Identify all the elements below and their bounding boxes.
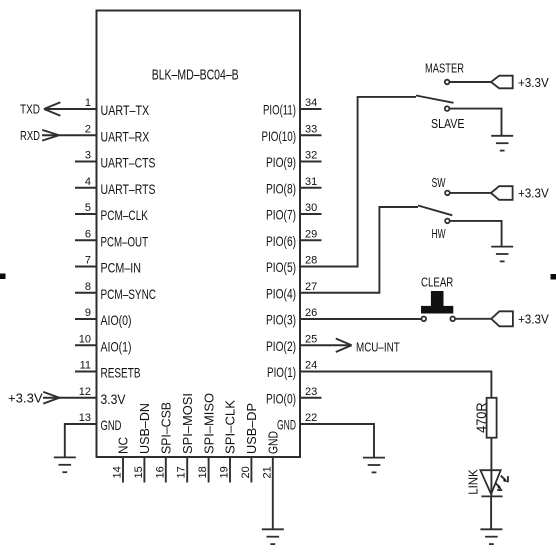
svg-text:10: 10	[79, 333, 91, 345]
pin 29 label PIO(6)	[266, 233, 296, 249]
svg-text:+3.3V: +3.3V	[518, 75, 549, 90]
push button CLEAR left terminal	[422, 317, 427, 322]
ground symbol (LED)	[480, 529, 502, 544]
pin 16 stub	[165, 457, 167, 483]
pin 20 label USB–DP	[244, 403, 259, 454]
svg-text:28: 28	[305, 255, 317, 267]
pin 27 number	[305, 281, 317, 293]
pin 1 number	[85, 97, 91, 109]
pin 18 number	[197, 466, 209, 478]
pin 26 number	[305, 307, 317, 319]
pin 7 number	[85, 255, 91, 267]
label HW	[432, 226, 446, 241]
pin 21 number	[261, 466, 273, 478]
wire MASTER terminal to +3.3V flag	[450, 81, 491, 83]
ground symbol (pin 21)	[262, 529, 284, 544]
page edge mark right	[551, 274, 556, 280]
pin 16 number	[154, 466, 166, 478]
pin 4 number	[85, 176, 91, 188]
svg-text:7: 7	[85, 255, 91, 267]
svg-text:11: 11	[80, 360, 91, 372]
pin 25 label PIO(2)	[266, 338, 296, 354]
ground symbol (HW)	[491, 247, 513, 262]
pin 10 stub	[75, 344, 97, 346]
svg-text:PIO(11): PIO(11)	[263, 102, 296, 118]
pin 29 number	[305, 228, 317, 240]
pin 13 label GND	[101, 417, 122, 433]
pin 13 GND wire	[65, 424, 97, 457]
label SLAVE	[431, 116, 465, 131]
wire SLAVE terminal to ground	[450, 109, 502, 136]
pin 8 number	[85, 281, 91, 293]
label LINK	[466, 469, 481, 495]
push button CLEAR actuator	[421, 291, 453, 314]
svg-text:BLK–MD–BC04–B: BLK–MD–BC04–B	[152, 66, 239, 83]
pin 31 label PIO(8)	[266, 180, 296, 196]
pin 3 label UART–CTS	[101, 155, 156, 171]
svg-text:1: 1	[85, 97, 91, 109]
value label 470R	[473, 402, 489, 433]
pin 22 number	[305, 412, 317, 424]
pin 30 stub	[300, 213, 322, 215]
wire LED D1 to ground	[490, 496, 492, 529]
push button CLEAR right terminal	[450, 317, 455, 322]
pin 19 label SPI–CLK	[223, 400, 238, 454]
pin 1 UART-TX wire with arrow to net TXD	[44, 102, 97, 115]
label CLEAR	[421, 275, 453, 290]
pin 24 number	[305, 360, 317, 372]
svg-text:UART–RTS: UART–RTS	[101, 181, 156, 197]
svg-text:14: 14	[112, 466, 124, 478]
svg-text:33: 33	[305, 123, 317, 135]
pin 17 stub	[186, 457, 188, 483]
pin 32 label PIO(9)	[266, 154, 296, 170]
svg-text:+3.3V: +3.3V	[518, 186, 549, 201]
svg-text:5: 5	[85, 202, 91, 214]
label +3.3V (MASTER)	[518, 75, 549, 90]
svg-text:PIO(5): PIO(5)	[266, 259, 296, 275]
pin 34 number	[305, 97, 317, 109]
pin 11 label RESETB	[101, 365, 141, 381]
pin 14 number	[112, 466, 124, 478]
net label +3.3V (pin 12)	[8, 390, 43, 405]
svg-text:13: 13	[79, 412, 91, 424]
pin 12 label 3.3V	[101, 391, 127, 407]
pin 20 number	[240, 466, 252, 478]
svg-text:SPI–MOSI: SPI–MOSI	[180, 393, 195, 454]
power flag +3.3V (MASTER)	[491, 76, 513, 89]
pin 12 number	[79, 386, 91, 398]
IC U1 BLK-MD-BC04-B body	[97, 11, 301, 458]
pin 1 label UART–TX	[101, 102, 150, 118]
IC U1 part name label BLK-MD-BC04-B	[152, 66, 239, 83]
svg-text:27: 27	[305, 281, 317, 293]
pin 15 stub	[143, 457, 145, 483]
pin 9 label AIO(0)	[101, 312, 132, 328]
power flag +3.3V (CLEAR)	[491, 311, 513, 326]
svg-text:PCM–SYNC: PCM–SYNC	[101, 286, 157, 302]
pin 28 number	[305, 255, 317, 267]
svg-text:PIO(9): PIO(9)	[266, 154, 296, 170]
pin 29 stub	[300, 239, 322, 241]
svg-text:25: 25	[305, 333, 317, 345]
switch S1 SLAVE terminal	[445, 106, 450, 111]
pin 34 stub	[300, 108, 322, 110]
pin 19 stub	[229, 457, 231, 483]
ground symbol (pin 13)	[54, 457, 76, 472]
svg-text:TXD: TXD	[20, 102, 40, 117]
pin 34 label PIO(11)	[263, 102, 296, 118]
svg-text:15: 15	[133, 466, 145, 478]
pin 10 label AIO(1)	[101, 338, 132, 354]
switch S1 blade	[416, 96, 454, 103]
pin 3 number	[85, 150, 91, 162]
wire pin 28 PIO(5) to switch S1 pole	[300, 97, 416, 267]
switch S2 HW terminal	[445, 219, 450, 224]
pin 17 number	[176, 466, 188, 478]
page edge mark left	[0, 274, 6, 280]
label SW	[432, 175, 446, 190]
pin 4 stub	[75, 187, 97, 189]
svg-text:6: 6	[85, 228, 91, 240]
pin 4 label UART–RTS	[101, 181, 156, 197]
svg-text:+3.3V: +3.3V	[518, 312, 549, 327]
pin 8 label PCM–SYNC	[101, 286, 157, 302]
pin 32 stub	[300, 161, 322, 163]
pin 18 label SPI–MISO	[201, 393, 216, 454]
pin 24 label PIO(1)	[267, 364, 296, 380]
svg-text:PIO(3): PIO(3)	[266, 312, 296, 328]
svg-text:PCM–IN: PCM–IN	[101, 260, 142, 276]
pin 30 label PIO(7)	[266, 207, 296, 223]
wire resistor R1 to LED D1	[490, 438, 492, 497]
svg-text:34: 34	[305, 97, 317, 109]
svg-text:PIO(10): PIO(10)	[262, 128, 297, 144]
svg-text:SLAVE: SLAVE	[431, 116, 465, 131]
wire pin 27 PIO(4) to switch S2 pole	[300, 207, 418, 293]
svg-text:PIO(1): PIO(1)	[267, 364, 296, 380]
pin 15 number	[133, 466, 145, 478]
pin 28 label PIO(5)	[266, 259, 296, 275]
svg-text:+3.3V: +3.3V	[8, 390, 43, 405]
label MASTER	[425, 61, 464, 76]
pin 23 number	[305, 386, 317, 398]
svg-text:8: 8	[85, 281, 91, 293]
svg-text:3.3V: 3.3V	[101, 391, 127, 407]
switch S2 SW terminal	[445, 191, 450, 196]
svg-text:PIO(0): PIO(0)	[266, 390, 296, 406]
svg-text:PIO(4): PIO(4)	[266, 285, 296, 301]
pin 32 number	[305, 150, 317, 162]
pin 8 stub	[75, 292, 97, 294]
svg-text:32: 32	[305, 150, 317, 162]
pin 7 label PCM–IN	[101, 260, 142, 276]
svg-text:26: 26	[305, 307, 317, 319]
net label RXD	[20, 128, 40, 143]
svg-text:PCM–OUT: PCM–OUT	[101, 233, 149, 249]
LED D1 light arrows	[495, 476, 508, 491]
pin 33 stub	[300, 134, 322, 136]
svg-text:17: 17	[176, 466, 188, 478]
pin 6 number	[85, 228, 91, 240]
wire pin 22 GND to ground	[300, 424, 374, 458]
svg-text:21: 21	[261, 466, 273, 478]
pin 21 label GND	[266, 431, 281, 454]
pin 14 label NC	[116, 437, 131, 454]
svg-text:31: 31	[305, 176, 317, 188]
svg-text:USB–DP: USB–DP	[244, 403, 259, 454]
pin 5 stub	[75, 213, 97, 215]
pin 26 label PIO(3)	[266, 312, 296, 328]
pin 14 stub	[122, 457, 124, 483]
svg-text:NC: NC	[116, 437, 131, 454]
pin 27 label PIO(4)	[266, 285, 296, 301]
pin 30 number	[305, 202, 317, 214]
pin 6 stub	[75, 239, 97, 241]
svg-text:GND: GND	[277, 417, 296, 433]
svg-text:MCU–INT: MCU–INT	[356, 340, 400, 355]
label +3.3V (CLEAR)	[518, 312, 549, 327]
svg-text:MASTER: MASTER	[425, 61, 464, 76]
svg-text:PCM–CLK: PCM–CLK	[101, 207, 149, 223]
svg-text:18: 18	[197, 466, 209, 478]
resistor R1 470R	[487, 398, 497, 438]
pin 33 number	[305, 123, 317, 135]
svg-text:PIO(6): PIO(6)	[266, 233, 296, 249]
pin 11 stub	[75, 371, 97, 373]
pin 5 label PCM–CLK	[101, 207, 149, 223]
svg-text:AIO(1): AIO(1)	[101, 338, 132, 354]
pin 31 stub	[300, 187, 322, 189]
svg-text:SPI–CLK: SPI–CLK	[223, 400, 238, 454]
pin 2 UART-RX wire with arrow from net RXD	[42, 130, 97, 141]
pin 20 stub	[250, 457, 252, 483]
pin 23 label PIO(0)	[266, 390, 296, 406]
wire HW terminal to ground	[450, 221, 502, 247]
svg-text:SPI–CSB: SPI–CSB	[159, 402, 174, 454]
svg-text:29: 29	[305, 228, 317, 240]
net label MCU-INT	[356, 340, 400, 355]
pin 5 number	[85, 202, 91, 214]
pin 9 stub	[75, 318, 97, 320]
svg-text:24: 24	[305, 360, 317, 372]
wire pin 26 PIO(3) to push button	[300, 318, 421, 320]
ground symbol (pin 22)	[363, 458, 385, 473]
pin 16 label SPI–CSB	[159, 402, 174, 454]
svg-text:PIO(2): PIO(2)	[266, 338, 296, 354]
pin 2 label UART–RX	[101, 128, 150, 144]
pin 25 number	[305, 333, 317, 345]
svg-text:PIO(8): PIO(8)	[266, 180, 296, 196]
svg-text:GND: GND	[266, 431, 281, 454]
svg-text:USB–DN: USB–DN	[137, 403, 152, 454]
pin 33 label PIO(10)	[262, 128, 297, 144]
wire SW terminal to +3.3V flag	[450, 192, 491, 194]
svg-text:UART–CTS: UART–CTS	[101, 155, 156, 171]
pin 7 stub	[75, 266, 97, 268]
switch S1 MASTER terminal	[445, 80, 450, 85]
wire push button to +3.3V flag	[455, 318, 491, 320]
pin 17 label SPI–MOSI	[180, 393, 195, 454]
svg-text:470R: 470R	[473, 402, 489, 433]
pin 19 number	[219, 466, 231, 478]
svg-text:2: 2	[85, 123, 91, 135]
svg-text:CLEAR: CLEAR	[421, 275, 453, 290]
power flag +3.3V (SW)	[491, 186, 513, 200]
pin 3 stub	[75, 161, 97, 163]
ground symbol (SLAVE)	[491, 136, 513, 151]
pin 18 stub	[208, 457, 210, 483]
svg-text:22: 22	[305, 412, 317, 424]
svg-text:9: 9	[85, 307, 91, 319]
pin 21 GND wire	[272, 457, 274, 529]
pin 6 label PCM–OUT	[101, 233, 149, 249]
wire pin 24 PIO(1) to resistor R1	[300, 372, 491, 398]
svg-text:UART–RX: UART–RX	[101, 128, 150, 144]
pin 12 3.3V supply wire with arrow	[43, 392, 97, 404]
pin 31 number	[305, 176, 317, 188]
switch S2 blade	[418, 206, 452, 216]
LED D1 LINK	[480, 470, 502, 496]
svg-text:AIO(0): AIO(0)	[101, 312, 132, 328]
pin 10 number	[79, 333, 91, 345]
pin 13 number	[79, 412, 91, 424]
svg-text:PIO(7): PIO(7)	[266, 207, 296, 223]
pin 2 number	[85, 123, 91, 135]
svg-text:30: 30	[305, 202, 317, 214]
svg-text:RXD: RXD	[20, 128, 40, 143]
svg-text:16: 16	[154, 466, 166, 478]
label +3.3V (SW)	[518, 186, 549, 201]
wire pin 25 PIO(2) with arrow to net MCU-INT	[300, 338, 352, 352]
svg-text:4: 4	[85, 176, 91, 188]
svg-text:20: 20	[240, 466, 252, 478]
net label TXD	[20, 102, 40, 117]
svg-text:19: 19	[219, 466, 231, 478]
pin 22 label GND	[277, 417, 296, 433]
svg-text:SW: SW	[432, 175, 446, 190]
svg-text:12: 12	[79, 386, 91, 398]
svg-text:23: 23	[305, 386, 317, 398]
pin 9 number	[85, 307, 91, 319]
svg-text:3: 3	[85, 150, 91, 162]
svg-text:RESETB: RESETB	[101, 365, 141, 381]
pin 23 stub	[300, 397, 322, 399]
svg-text:UART–TX: UART–TX	[101, 102, 150, 118]
svg-text:GND: GND	[101, 417, 122, 433]
svg-text:SPI–MISO: SPI–MISO	[201, 393, 216, 454]
svg-text:HW: HW	[432, 226, 446, 241]
pin 15 label USB–DN	[137, 403, 152, 454]
pin 11 number	[80, 360, 91, 372]
svg-text:LINK: LINK	[466, 469, 481, 495]
